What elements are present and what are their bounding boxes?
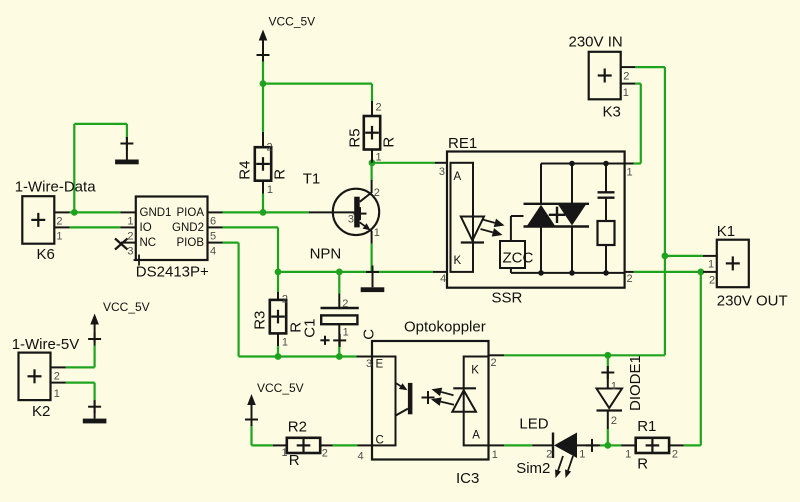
svg-text:5: 5 [210,231,216,243]
junction LED net at DIODE1/R1 [604,442,611,449]
pin number R4-1 [267,184,273,196]
svg-text:R: R [637,456,648,473]
svg-text:1: 1 [282,447,288,459]
ground (near K6) [115,137,139,164]
svg-text:1: 1 [627,167,633,179]
svg-text:K: K [471,365,479,377]
wire R4 pin1 to PIOA net [262,194,264,213]
svg-text:1: 1 [611,381,617,393]
pin number K3-1 [623,87,629,99]
svg-text:2: 2 [627,273,633,285]
RE1 gate wiring [511,216,524,273]
svg-text:C: C [376,435,384,447]
wire IC3 pin2 net horizontal [504,354,665,356]
svg-text:VCC_5V: VCC_5V [269,15,316,29]
wire 1-Wire-Data up to ground stub [73,124,75,212]
pin number DS-4 [210,246,216,258]
svg-text:DIODE1: DIODE1 [627,355,644,411]
connector K1 [703,223,788,310]
wire collector net horizontal to RE1 pin3 [372,162,435,164]
pin number DS-2 [127,231,133,243]
wire K2 pin1 to ground [66,383,95,402]
pin number K2-1 [54,388,60,400]
pin number IC3-3 [366,358,372,370]
IC U1 DS2413P+ body [120,197,222,266]
pin number DS-6 [210,216,216,228]
capacitor C1 [302,294,378,347]
wire K3 pin2 to 230V-IN net [635,67,665,256]
svg-text:1: 1 [54,388,60,400]
relay RE1 outer box [433,135,634,307]
svg-text:DS2413P+: DS2413P+ [136,264,209,281]
svg-text:R2: R2 [288,418,307,435]
svg-text:1: 1 [282,336,288,348]
pin name IO [140,222,152,234]
pin number DIODE1-2 [611,415,617,427]
wire GND2 net horizontal to RE1 pin4 [278,271,433,273]
svg-text:Sim2: Sim2 [516,460,550,477]
svg-text:3: 3 [366,358,372,370]
svg-text:E: E [376,359,384,371]
no-connect cross on DS2413 pin3 NC [115,239,128,250]
wire K2 pin2 to VCC_5V [66,345,95,367]
ground (under T1 emitter) [361,266,385,293]
svg-text:4: 4 [440,273,446,285]
wire RE1 pin2 to K1 pin2 [634,271,704,273]
resistor R3 [252,292,305,346]
svg-text:T1: T1 [303,171,321,188]
svg-text:IO: IO [140,222,152,234]
wire DS2413 pin4 PIOB horizontal [223,242,239,244]
junction GND2 net at C1 [336,269,343,276]
junction RE1 bottom rail at triac [569,270,575,276]
resistor R5 [347,101,398,163]
wire R3 pin2 up to GND2 net [277,272,279,292]
svg-text:PIOB: PIOB [177,237,205,249]
svg-text:230V IN: 230V IN [569,33,623,50]
LED emission arrows [555,456,573,478]
junction RE1 bottom rail left [538,270,544,276]
pin number DIODE1-1 [611,381,617,393]
pin number K6-2 [56,216,62,228]
label A [472,430,480,442]
svg-text:1: 1 [623,87,629,99]
svg-text:4: 4 [210,246,216,258]
svg-text:R: R [381,137,398,148]
supply VCC_5V (top) [257,15,316,62]
wire DIODE1 pin2 down to LED net [607,429,609,445]
wire VCC_5V drop to R5 pin 2 [371,84,373,101]
wire collector net vertical to T1 [371,163,373,181]
transistor T1 [303,171,379,263]
label C [376,435,384,447]
RE1 snubber resistor [598,221,615,273]
pin name NC [140,237,157,249]
pin number T1-3 [348,213,354,225]
junction RE1 top rail at triac [569,161,575,167]
junction IC3 pin2 net at DIODE1 [604,352,611,359]
pin number RE1-1 [627,167,633,179]
svg-text:VCC_5V: VCC_5V [103,300,150,314]
pin number LED-1 [579,449,585,461]
svg-text:1: 1 [127,216,133,228]
pin name PIOA [177,207,205,219]
connector K3 [569,33,636,120]
svg-text:K: K [454,255,462,267]
pin number R4-2 [267,142,273,154]
wire 230V-OUT to R1 pin2 [684,444,701,446]
wire 230V-OUT down right side [700,272,702,446]
junction T1 collector / R5 / RE1 A-net [369,159,376,166]
junction PIOA net at R4 [260,209,267,216]
RE1 internal rails [511,164,625,273]
svg-text:1: 1 [267,184,273,196]
pin number K2-2 [54,371,60,383]
svg-text:3: 3 [127,246,133,258]
svg-text:R: R [289,452,300,469]
pin number C1-2 [342,298,348,310]
svg-text:6: 6 [210,216,216,228]
svg-text:2: 2 [376,102,382,114]
svg-text:GND2: GND2 [172,222,204,234]
wire VCC_5V horizontal branch to R5 [262,82,372,84]
svg-text:2: 2 [709,275,715,287]
junction GND2 net at R3 [275,269,282,276]
RE1 emission arrows [481,219,505,237]
pin number R3-1 [282,336,288,348]
connector K6 [15,179,97,264]
svg-text:VCC_5V: VCC_5V [257,381,304,395]
svg-text:2: 2 [127,231,133,243]
wire 230V-IN to K1 pin1 [665,255,703,257]
RE1 input LED [461,217,484,243]
wire IC3 pin1 to LED pin2 [504,444,532,446]
IC3 right inner box [464,357,489,446]
svg-text:1: 1 [374,227,380,239]
svg-text:K2: K2 [32,403,50,420]
wire DS2413 pin5 GND2 horizontal [223,226,279,228]
svg-text:2: 2 [491,357,497,369]
pin number R1-1 [625,449,631,461]
wire VCC_5V vertical from supply to R4 [262,60,264,132]
pin number IC3-1 [492,449,498,461]
svg-text:GND1: GND1 [140,207,172,219]
IC3 left inner box [372,357,396,446]
svg-text:SSR: SSR [492,290,523,307]
IC3 emission arrows [431,388,454,406]
svg-text:1: 1 [56,231,62,243]
pin number R2-1 [282,447,288,459]
connector K2 [12,336,80,420]
pin number IC3-2 [491,357,497,369]
svg-text:NC: NC [140,237,157,249]
diode DIODE1 [597,355,645,429]
RE1 input side inner box [451,163,474,272]
wire RE1 pin1 to K3 pin1 corner [634,84,641,164]
svg-text:1: 1 [579,449,585,461]
svg-text:2: 2 [56,216,62,228]
wire C1 pin1 down to E-net [338,345,340,357]
svg-text:K1: K1 [717,223,735,240]
pin number LED-2 [546,449,552,461]
junction RE1 bottom rail at snubber [603,270,609,276]
resistor R4 [237,132,289,194]
svg-text:IC3: IC3 [456,470,479,487]
svg-text:ZCC: ZCC [503,249,534,266]
junction 1-Wire-Data at K6 [71,209,78,216]
optocoupler IC3 outer box [357,319,505,488]
resistor R2 [273,418,333,469]
svg-text:2: 2 [546,449,552,461]
pin number K6-1 [56,231,62,243]
svg-text:2: 2 [623,71,629,83]
svg-text:2: 2 [54,371,60,383]
junction 230V-IN net at K1 pin1 [662,253,669,260]
svg-text:K3: K3 [603,104,621,121]
wire C1 pin2 up to GND2 net [338,272,340,294]
supply VCC_5V (at R2) [245,381,304,426]
svg-text:1: 1 [625,449,631,461]
wire DIODE1 pin1 stub [607,355,609,368]
svg-text:1: 1 [376,152,382,164]
junction E-net at R3 [275,353,282,360]
label A (RE1 anode) [454,171,462,183]
IC3 internal LED [452,388,476,412]
resistor R1 [621,418,684,473]
wire 230V-IN down to IC3 pin2 net [664,256,666,355]
wire T1 emitter to ground net [371,244,373,272]
svg-text:R3: R3 [252,311,269,330]
svg-text:1-Wire-Data: 1-Wire-Data [15,179,97,196]
junction E-net at C1 [336,353,343,360]
pin number DS-5 [210,231,216,243]
svg-text:2: 2 [611,415,617,427]
pin number RE1-3 [439,166,445,178]
svg-text:1-Wire-5V: 1-Wire-5V [12,336,80,353]
pin number DS-3 [127,246,133,258]
svg-text:A: A [472,430,480,442]
svg-text:3: 3 [439,166,445,178]
svg-text:3: 3 [348,213,354,225]
junction 230V-OUT net at K1 pin2 [697,269,704,276]
wire R3 pin1 down to E-net [277,346,279,357]
RE1 triac [524,204,590,227]
svg-text:PIOA: PIOA [177,207,205,219]
svg-text:R1: R1 [637,418,656,435]
svg-text:2: 2 [322,448,328,460]
svg-text:A: A [454,171,462,183]
svg-text:LED: LED [519,416,548,433]
svg-text:R: R [272,169,289,180]
pin number R1-2 [672,449,678,461]
svg-text:R5: R5 [347,128,364,147]
IC3 phototransistor [396,383,413,416]
ground (under K2) [83,400,107,423]
svg-text:K6: K6 [37,246,55,263]
wire K6 pin2 to DS2413 pin1 [70,211,121,213]
supply VCC_5V (at K2) [88,300,150,346]
pin number K1-2 [709,275,715,287]
LED diode [516,416,600,478]
pin number T1-2 [374,187,380,199]
pin number K1-1 [708,259,714,271]
label E [376,359,384,371]
junction RE1 top rail at snubber [603,161,609,167]
svg-text:2: 2 [672,449,678,461]
svg-text:2: 2 [267,142,273,154]
wire PIOA net horizontal DS2413 pin6 to T1 base [223,211,309,213]
pin name GND1 [140,207,172,219]
svg-text:4: 4 [358,450,364,462]
wire VCC_5V to R2 pin1 [252,425,273,445]
IC3 origin cross [422,391,435,404]
pin number K3-2 [623,71,629,83]
pin number T1-1 [374,227,380,239]
svg-text:C: C [361,329,378,340]
pin number RE1-4 [440,273,446,285]
pin number C1-1 [343,326,349,338]
pin number DS-1 [127,216,133,228]
pin number R3-2 [282,294,288,306]
svg-text:1: 1 [492,449,498,461]
wire K6 pin1 to DS2413 pin2 [70,226,121,228]
wire E-net horizontal to IC3 pin3 [239,355,357,357]
svg-text:C1: C1 [302,319,319,338]
svg-text:NPN: NPN [310,246,342,263]
label K [471,365,479,377]
svg-text:R4: R4 [237,161,254,180]
pin name PIOB [177,237,205,249]
pin number RE1-2 [627,273,633,285]
pin number R5-1 [376,152,382,164]
wire R2 pin2 to IC3 pin4 [333,444,358,446]
pin number R2-2 [322,448,328,460]
svg-text:RE1: RE1 [448,135,477,152]
wire PIOB vertical down to E-net [238,243,240,357]
wire ground stub vertical [126,124,128,138]
wire ground stub horizontal [74,123,127,125]
pin name GND2 [172,222,204,234]
wire LED pin1 to junction [600,444,608,446]
junction VCC_5V at R4 branch [260,80,267,87]
svg-text:2: 2 [374,187,380,199]
label DS2413P+ [136,264,209,281]
svg-text:1: 1 [708,259,714,271]
svg-text:2: 2 [282,294,288,306]
svg-text:230V OUT: 230V OUT [717,293,788,310]
RE1 snubber capacitor [598,164,615,222]
svg-text:1: 1 [343,326,349,338]
pin number R5-2 [376,102,382,114]
pin number IC3-4 [358,450,364,462]
label K (RE1 cathode) [454,255,462,267]
svg-text:2: 2 [342,298,348,310]
svg-text:Optokoppler: Optokoppler [404,319,486,336]
RE1 ZCC box [500,241,533,268]
wire LED net to R1 pin1 [608,444,621,446]
wire GND2 net vertical drop [277,227,279,272]
